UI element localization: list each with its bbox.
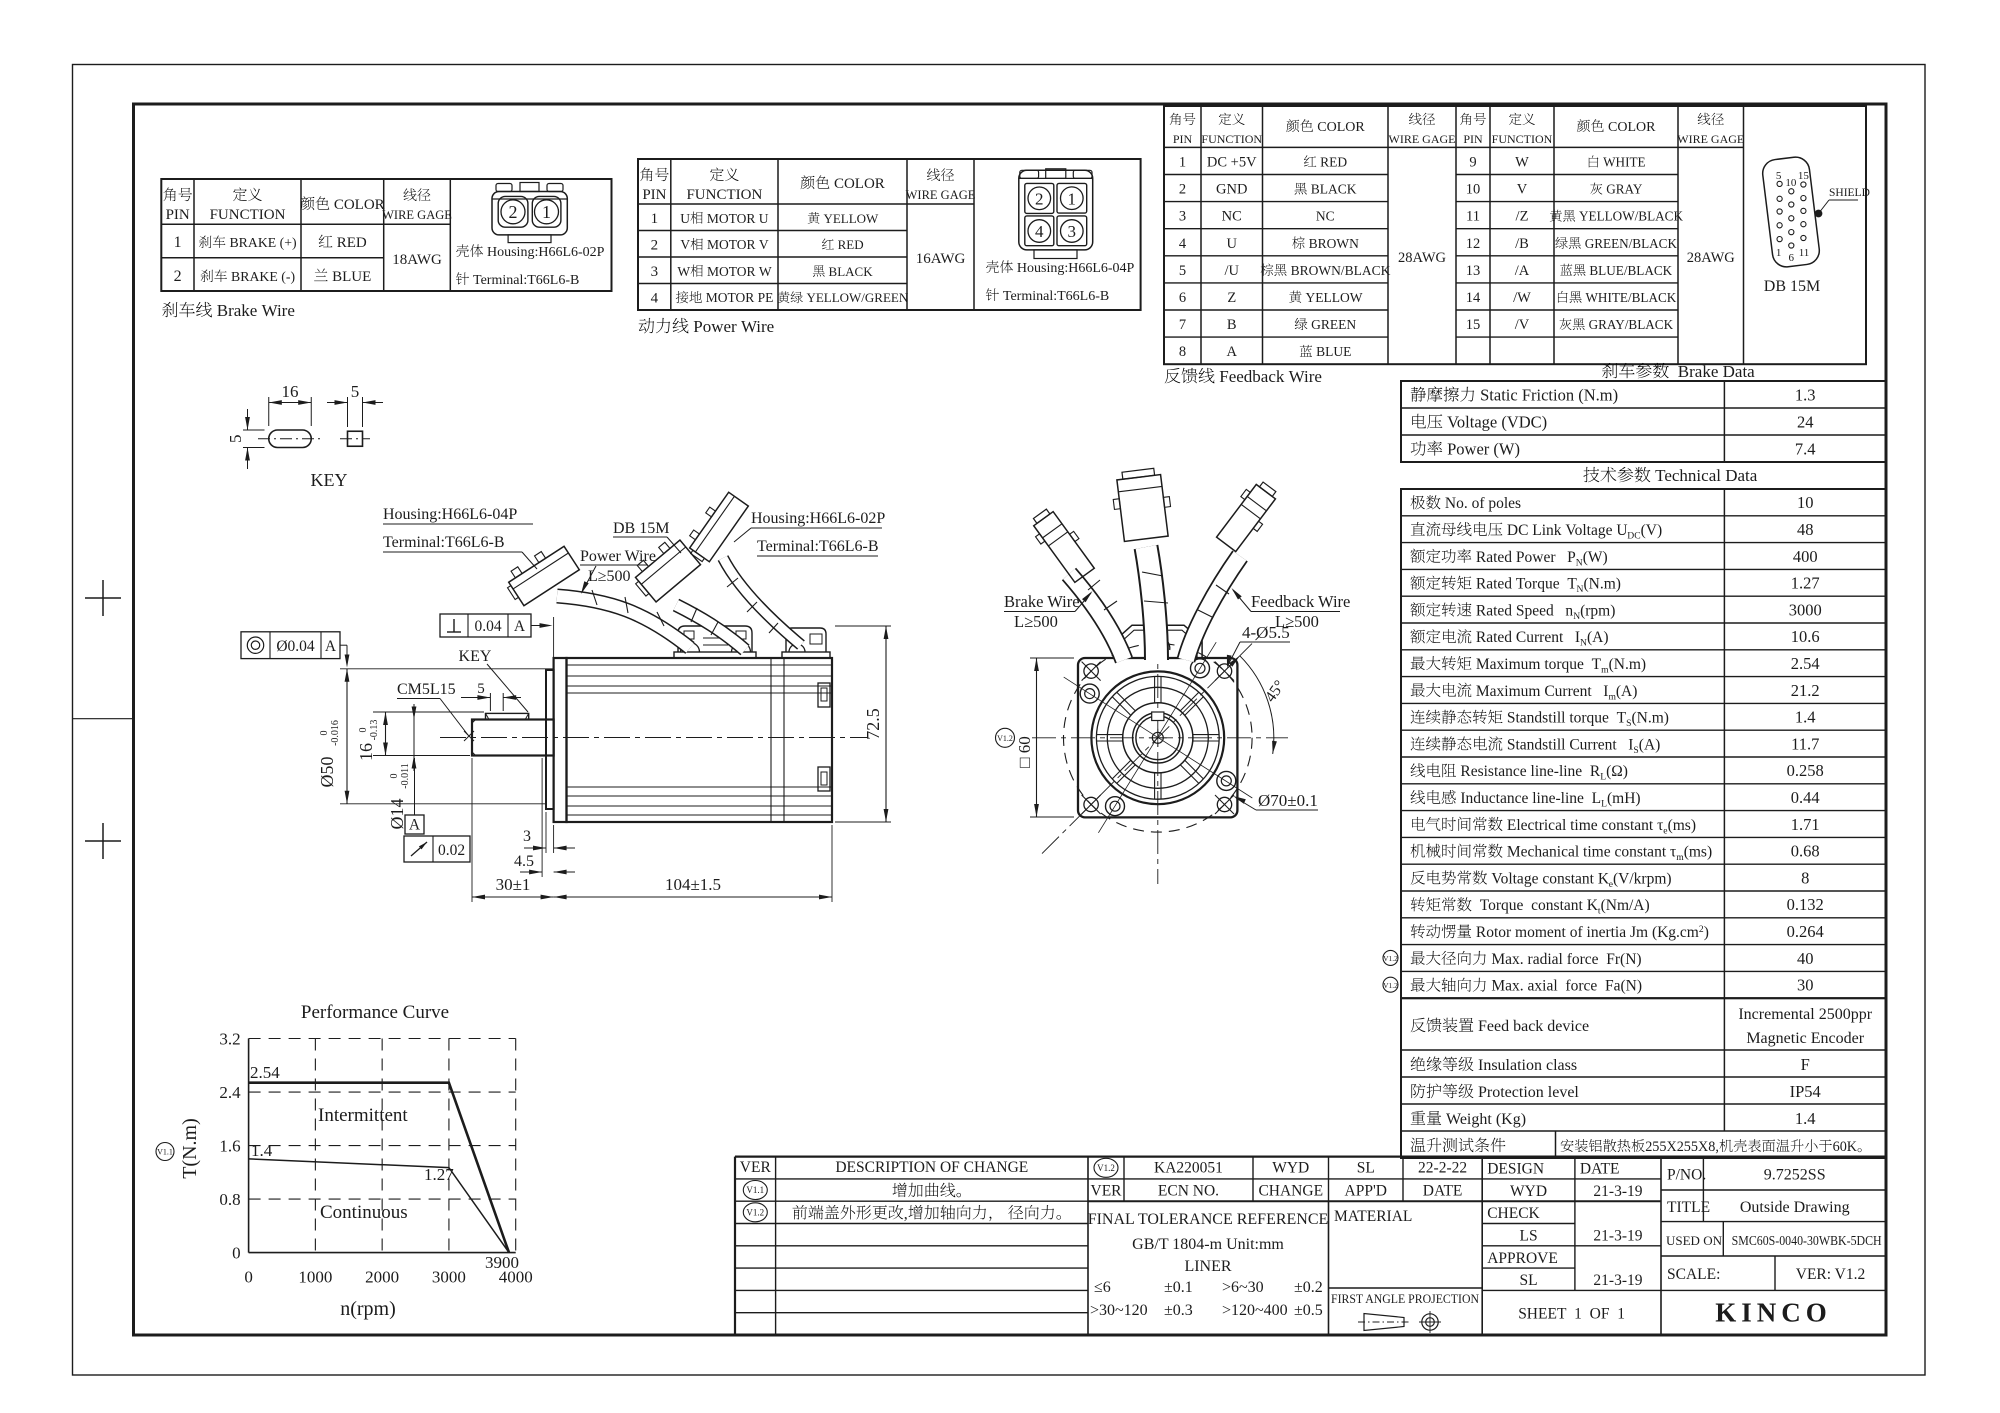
svg-text:T(N.m): T(N.m) (179, 1118, 201, 1179)
svg-text:11: 11 (1466, 209, 1480, 225)
svg-text:COLOR: COLOR (1314, 120, 1366, 135)
svg-text:Maximum torque T: Maximum torque T (1472, 656, 1602, 673)
svg-text:/U: /U (1225, 263, 1240, 279)
front view brake connector (1026, 504, 1098, 585)
svg-text:Max. radial force Fr(N): Max. radial force Fr(N) (1488, 951, 1642, 968)
svg-text:Terminal:T66L6-B: Terminal:T66L6-B (999, 289, 1109, 304)
svg-text:Voltage constant K: Voltage constant K (1488, 870, 1610, 887)
svg-text:4-Ø5.5: 4-Ø5.5 (1242, 623, 1290, 642)
svg-text:8: 8 (1801, 868, 1809, 887)
svg-text:FUNCTION: FUNCTION (210, 207, 286, 223)
svg-text:7: 7 (1179, 317, 1186, 333)
dim 3 (545, 812, 547, 853)
svg-text:WYD: WYD (1510, 1183, 1547, 1200)
svg-text:13: 13 (1466, 263, 1481, 279)
side view power cable (557, 596, 690, 648)
material cell (1481, 1157, 1483, 1335)
brake wire table label (162, 302, 177, 317)
svg-text:1.6: 1.6 (219, 1137, 240, 1156)
svg-text:Z: Z (1227, 290, 1236, 306)
brake wire pin table (161, 179, 611, 291)
front view spokes (1193, 734, 1219, 736)
svg-text:V1.1: V1.1 (157, 1148, 173, 1157)
key detail: 5 dimension top (347, 397, 349, 427)
brake data table title (1602, 363, 1617, 378)
side view DB15M connector (627, 534, 700, 604)
power wire table label (639, 318, 655, 334)
front view middle cable (1146, 547, 1157, 660)
svg-text:BLUE: BLUE (1313, 344, 1352, 359)
front view feedback connector (1213, 477, 1283, 555)
svg-text:Standstill Current I: Standstill Current I (1503, 736, 1633, 753)
svg-text:3: 3 (523, 828, 531, 845)
svg-text:12: 12 (1466, 236, 1481, 252)
continuous curve (249, 1159, 509, 1253)
svg-text:KINCO: KINCO (1715, 1298, 1832, 1328)
svg-text:COLOR: COLOR (1605, 120, 1657, 135)
svg-text:Electrical time constant τ: Electrical time constant τ (1503, 817, 1663, 834)
svg-text:WHITE/BLACK: WHITE/BLACK (1582, 290, 1677, 305)
svg-text:NC: NC (1316, 209, 1335, 224)
svg-text:1.4: 1.4 (1795, 1109, 1816, 1128)
svg-text:FIRST ANGLE PROJECTION: FIRST ANGLE PROJECTION (1331, 1291, 1480, 1306)
svg-text:PIN: PIN (642, 187, 666, 203)
svg-text:104±1.5: 104±1.5 (665, 875, 721, 894)
svg-text:21.2: 21.2 (1791, 681, 1820, 700)
svg-text:KEY: KEY (459, 648, 492, 665)
centering mark upper-left (85, 597, 121, 599)
svg-text:SL: SL (1520, 1272, 1538, 1289)
svg-text:0: 0 (358, 728, 369, 733)
svg-text:BROWN: BROWN (1305, 236, 1359, 251)
svg-text:(N.m): (N.m) (1632, 710, 1669, 727)
key detail: 5 dimension left (243, 429, 265, 431)
svg-text:16: 16 (282, 382, 299, 401)
svg-text:CHECK: CHECK (1487, 1205, 1540, 1222)
svg-text:Maximum Current I: Maximum Current I (1472, 683, 1608, 700)
svg-text:(N.m): (N.m) (1609, 656, 1646, 673)
svg-text:/V: /V (1515, 317, 1530, 333)
svg-text:Magnetic Encoder: Magnetic Encoder (1746, 1030, 1864, 1047)
svg-text:/W: /W (1513, 290, 1531, 306)
svg-text:LS: LS (1520, 1228, 1538, 1245)
svg-text:-0.13: -0.13 (369, 720, 380, 741)
datum A box (405, 815, 424, 834)
V1.2 bubble front view (996, 728, 1015, 747)
svg-text:(N.m): (N.m) (1584, 576, 1621, 593)
svg-text:3900: 3900 (485, 1253, 519, 1272)
svg-text:400: 400 (1793, 547, 1818, 566)
svg-text:(Ω): (Ω) (1606, 763, 1628, 780)
svg-text:Outside Drawing: Outside Drawing (1740, 1199, 1850, 1216)
svg-text:2: 2 (174, 268, 182, 285)
svg-text:(rpm): (rpm) (1580, 602, 1615, 619)
svg-text:(W): (W) (1583, 549, 1608, 566)
svg-text:BLACK: BLACK (1307, 182, 1356, 197)
svg-text:DESIGN: DESIGN (1487, 1161, 1544, 1178)
front view right cable (1186, 556, 1240, 660)
svg-text:BROWN/BLACK: BROWN/BLACK (1287, 263, 1390, 278)
concentricity tolerance box (d0.04 A) (241, 632, 340, 659)
svg-text:(mH): (mH) (1607, 790, 1641, 807)
svg-text:SHEET 1 OF 1: SHEET 1 OF 1 (1518, 1305, 1625, 1322)
svg-text:5: 5 (1179, 263, 1186, 279)
performance curve grid (249, 1038, 516, 1040)
svg-text:Housing:H66L6-04P: Housing:H66L6-04P (1013, 261, 1134, 276)
svg-text:21-3-19: 21-3-19 (1593, 1272, 1642, 1289)
svg-text:Resistance line-line R: Resistance line-line R (1457, 763, 1601, 780)
svg-text:P/NO.: P/NO. (1667, 1166, 1706, 1183)
front view left cable (1069, 574, 1124, 660)
svg-text:3: 3 (1068, 222, 1077, 241)
svg-text:CM5L15: CM5L15 (397, 681, 456, 698)
svg-text:SMC60S-0040-30WBK-5DCH: SMC60S-0040-30WBK-5DCH (1732, 1234, 1882, 1249)
svg-text:COLOR: COLOR (830, 176, 885, 192)
svg-text:10: 10 (1797, 493, 1814, 512)
svg-text:255X255X8,: 255X255X8, (1645, 1139, 1719, 1155)
svg-text:Housing:H66L6-02P: Housing:H66L6-02P (484, 245, 605, 260)
front view bolt circle dashed (1064, 644, 1253, 833)
svg-text:2: 2 (651, 237, 659, 253)
svg-text:A: A (325, 638, 337, 655)
svg-text:/Z: /Z (1516, 209, 1529, 225)
side view shaft key (486, 713, 529, 719)
svg-text:NC: NC (1222, 209, 1242, 225)
svg-text:±0.2: ±0.2 (1294, 1279, 1323, 1296)
feedback wire table label (1165, 368, 1181, 383)
DB15M connector drawing (1761, 156, 1821, 269)
dim 72.5 (835, 625, 891, 627)
svg-text:V1.2: V1.2 (1383, 954, 1398, 963)
svg-text:9.7252SS: 9.7252SS (1764, 1166, 1826, 1183)
svg-text:0: 0 (232, 1244, 241, 1263)
svg-text:Ø70±0.1: Ø70±0.1 (1258, 791, 1318, 810)
svg-text:Housing:H66L6-02P: Housing:H66L6-02P (751, 510, 885, 527)
svg-text:): ) (1704, 924, 1709, 941)
svg-text:Power Wire: Power Wire (580, 548, 656, 565)
svg-text:11.7: 11.7 (1791, 734, 1819, 753)
svg-text:11: 11 (1799, 247, 1810, 259)
svg-text:4.5: 4.5 (514, 853, 534, 870)
svg-text:MOTOR V: MOTOR V (704, 237, 769, 252)
svg-text:FUNCTION: FUNCTION (686, 187, 762, 203)
svg-text:W: W (677, 264, 690, 279)
front view diagonal centerline 45deg (1042, 634, 1262, 854)
svg-text:3: 3 (1179, 209, 1186, 225)
svg-text:2: 2 (509, 202, 518, 222)
svg-text:MOTOR W: MOTOR W (704, 264, 772, 279)
svg-text:BRAKE (-): BRAKE (-) (228, 269, 295, 285)
lower spec rows (1401, 998, 1886, 1158)
svg-text:3: 3 (651, 264, 659, 280)
revision bubbles V1.2 beside force rows (1383, 950, 1398, 965)
svg-text:B: B (1227, 317, 1237, 333)
front view hub and shaft circles (1133, 713, 1183, 763)
svg-text:0.132: 0.132 (1787, 895, 1824, 914)
svg-text:SHIELD: SHIELD (1829, 187, 1870, 199)
key detail: stadium outline (269, 430, 312, 448)
svg-text:7.4: 7.4 (1795, 440, 1816, 459)
svg-text:1: 1 (1776, 247, 1782, 259)
margin zone divider (73, 718, 134, 720)
dim 4.5 (541, 758, 543, 877)
svg-text:VER: V1.2: VER: V1.2 (1796, 1266, 1865, 1283)
performance curve axes (248, 1039, 250, 1253)
technical data table (1401, 489, 1886, 998)
svg-text:Torque constant K: Torque constant K (1472, 897, 1599, 914)
svg-text:TITLE: TITLE (1667, 1199, 1710, 1216)
svg-text:3000: 3000 (1789, 600, 1822, 619)
svg-text:A: A (1227, 344, 1238, 360)
front view top connector mount (1114, 625, 1202, 658)
key detail: 16 dimension (268, 397, 270, 426)
svg-text:21-3-19: 21-3-19 (1593, 1228, 1642, 1245)
svg-text:BLACK: BLACK (825, 264, 873, 279)
svg-text:YELLOW: YELLOW (1302, 290, 1363, 305)
svg-text:N: N (1580, 638, 1587, 649)
side view front flange (554, 658, 567, 822)
svg-text:Standstill torque T: Standstill torque T (1503, 710, 1627, 727)
45 degree arc (1240, 656, 1274, 754)
side view motor body (567, 658, 833, 822)
svg-text:5: 5 (1776, 170, 1782, 182)
svg-text:RED: RED (1317, 155, 1348, 170)
svg-text:DESCRIPTION OF CHANGE: DESCRIPTION OF CHANGE (835, 1159, 1028, 1176)
svg-text:GRAY: GRAY (1603, 182, 1643, 197)
svg-text:V1.2: V1.2 (1097, 1163, 1115, 1173)
svg-text:Performance Curve: Performance Curve (301, 1002, 449, 1023)
svg-text:(V): (V) (1641, 522, 1663, 539)
svg-text:A: A (409, 817, 421, 834)
svg-text:PIN: PIN (166, 207, 190, 223)
side view power connector base (678, 626, 752, 652)
svg-text:n(rpm): n(rpm) (340, 1298, 396, 1320)
svg-text:U: U (1227, 236, 1238, 252)
svg-text:16: 16 (356, 743, 376, 761)
svg-text:CHANGE: CHANGE (1258, 1182, 1323, 1199)
svg-text:YELLOW/GREEN: YELLOW/GREEN (803, 290, 909, 305)
svg-text:WIRE GAGE: WIRE GAGE (906, 188, 976, 202)
svg-text:YELLOW/BLACK: YELLOW/BLACK (1576, 209, 1684, 224)
side view power connector H66L6-04P (501, 540, 579, 608)
svg-text:GREEN/BLACK: GREEN/BLACK (1581, 236, 1677, 251)
front view square flange (1078, 658, 1237, 817)
svg-text:DC Link Voltage U: DC Link Voltage U (1503, 522, 1628, 539)
dim 104 +/-1.5 (831, 825, 833, 902)
svg-text:WIRE GAGE: WIRE GAGE (1677, 132, 1744, 146)
svg-text:-0.011: -0.011 (400, 763, 411, 788)
dim diameter 50 (340, 668, 554, 670)
svg-text:0.44: 0.44 (1791, 788, 1820, 807)
svg-text:(A): (A) (1587, 629, 1609, 646)
svg-text:WYD: WYD (1272, 1160, 1309, 1177)
svg-text:±0.1: ±0.1 (1164, 1279, 1193, 1296)
svg-text:6: 6 (1789, 252, 1795, 264)
svg-text:0.68: 0.68 (1791, 842, 1820, 861)
svg-text:3.2: 3.2 (219, 1030, 240, 1049)
svg-text:Inductance line-line L: Inductance line-line L (1457, 790, 1602, 807)
svg-text:W: W (1515, 154, 1529, 170)
inner drawing frame (134, 104, 1887, 1335)
svg-text:RED: RED (834, 237, 863, 252)
svg-text:Power (W): Power (W) (1443, 440, 1520, 459)
dim 30 +/-1 (471, 758, 473, 902)
svg-text:Feed back device: Feed back device (1474, 1018, 1589, 1035)
svg-text:Terminal:T66L6-B: Terminal:T66L6-B (757, 538, 879, 555)
centering mark lower-left (85, 840, 121, 842)
svg-text:28AWG: 28AWG (1398, 250, 1446, 266)
svg-text:2000: 2000 (365, 1268, 399, 1287)
svg-text:2.4: 2.4 (219, 1083, 241, 1102)
svg-text:DATE: DATE (1580, 1161, 1620, 1178)
svg-text:2: 2 (1035, 190, 1044, 209)
side view brake connector H66L6-02P (682, 488, 749, 565)
dim diameter 14 (413, 704, 415, 720)
svg-text:SCALE:: SCALE: (1667, 1266, 1720, 1283)
front view cable gland circle (1146, 636, 1170, 650)
svg-text:1: 1 (1068, 190, 1077, 209)
svg-text:2: 2 (1179, 182, 1186, 198)
svg-text:8: 8 (1179, 344, 1186, 360)
svg-text:21-3-19: 21-3-19 (1593, 1183, 1642, 1200)
brake wire 2-pin connector icon (492, 192, 567, 235)
side view centerline (440, 737, 868, 739)
svg-text:Technical Data: Technical Data (1651, 466, 1758, 485)
svg-text:1: 1 (542, 202, 551, 222)
first angle projection cell (1329, 1287, 1483, 1289)
svg-text:-0.016: -0.016 (330, 720, 341, 746)
svg-text:15: 15 (1466, 317, 1481, 333)
svg-text:±0.3: ±0.3 (1164, 1302, 1193, 1319)
projection symbol circles (1422, 1314, 1438, 1330)
svg-text:WIRE GAGE: WIRE GAGE (1389, 132, 1456, 146)
svg-text:1.4: 1.4 (1795, 708, 1816, 727)
svg-text:L≥500: L≥500 (588, 568, 631, 585)
svg-text:0.04: 0.04 (474, 618, 501, 635)
revision history table (735, 1178, 1088, 1180)
svg-text:APPROVE: APPROVE (1487, 1250, 1558, 1267)
svg-text:No. of poles: No. of poles (1441, 495, 1521, 512)
svg-text:14: 14 (1466, 290, 1481, 306)
svg-text:Rated Speed n: Rated Speed n (1472, 602, 1573, 619)
design/check/approve columns (1574, 1157, 1576, 1291)
svg-text:≤6: ≤6 (1094, 1279, 1111, 1296)
svg-text:10: 10 (1785, 177, 1797, 189)
DB15M shield pin dot and label (1815, 210, 1822, 217)
temperature rise test condition row (1555, 1131, 1557, 1158)
svg-text:Terminal:T66L6-B: Terminal:T66L6-B (383, 534, 505, 551)
svg-text:Protection level: Protection level (1474, 1084, 1579, 1101)
svg-text:30: 30 (1797, 976, 1814, 995)
svg-text:40: 40 (1797, 949, 1814, 968)
svg-text:/A: /A (1515, 263, 1530, 279)
svg-text:DATE: DATE (1423, 1182, 1463, 1199)
svg-text:Ø0.04: Ø0.04 (276, 638, 315, 655)
svg-text:YELLOW: YELLOW (820, 211, 879, 226)
svg-text:28AWG: 28AWG (1687, 250, 1735, 266)
svg-text:MOTOR PE: MOTOR PE (702, 290, 773, 305)
svg-text:V1.2: V1.2 (746, 1207, 764, 1217)
front view through holes 4x (1191, 659, 1210, 678)
used on cell (1722, 1222, 1724, 1256)
svg-text:FINAL TOLERANCE REFERENCE: FINAL TOLERANCE REFERENCE (1088, 1211, 1329, 1228)
front view body circles (1091, 671, 1224, 804)
svg-text:5: 5 (351, 382, 360, 401)
svg-text:1: 1 (174, 234, 182, 251)
key detail: square section (348, 431, 363, 446)
svg-text:DB 15M: DB 15M (613, 520, 669, 537)
svg-text:GB/T 1804-m Unit:mm: GB/T 1804-m Unit:mm (1132, 1236, 1284, 1253)
svg-text:2.54: 2.54 (250, 1063, 280, 1082)
intermittent curve (249, 1083, 509, 1253)
svg-text:0.8: 0.8 (219, 1190, 240, 1209)
svg-text:15: 15 (1798, 170, 1810, 182)
svg-text:RED: RED (333, 235, 367, 251)
svg-text:Ø14: Ø14 (387, 799, 407, 830)
svg-text:0.258: 0.258 (1787, 761, 1824, 780)
front view corner mounting holes 4x (1084, 664, 1098, 678)
svg-text:PIN: PIN (1173, 132, 1193, 146)
side view brake cable (723, 558, 801, 645)
power wire pin table (638, 159, 1141, 310)
svg-text:Rotor moment of inertia Jm (Kg: Rotor moment of inertia Jm (Kg.cm (1472, 924, 1699, 941)
svg-text:0.02: 0.02 (438, 842, 465, 859)
svg-text:USED ON: USED ON (1666, 1233, 1723, 1248)
svg-text:30±1: 30±1 (496, 875, 531, 894)
side view pilot boss (546, 670, 554, 809)
svg-text:U: U (680, 211, 690, 226)
brake data table (1401, 381, 1886, 462)
svg-text:(A): (A) (1639, 736, 1661, 753)
svg-text:24: 24 (1797, 413, 1814, 432)
svg-text:BLUE/BLACK: BLUE/BLACK (1586, 263, 1673, 278)
svg-text:APP'D: APP'D (1345, 1182, 1387, 1199)
technical data table title (1583, 467, 1599, 482)
svg-text:/B: /B (1515, 236, 1529, 252)
part number / title cells (1702, 1157, 1704, 1222)
svg-text:1000: 1000 (298, 1268, 332, 1287)
svg-text:22-2-22: 22-2-22 (1418, 1160, 1467, 1177)
svg-text:DC: DC (1627, 531, 1640, 542)
svg-text:BLUE: BLUE (328, 269, 371, 285)
power wire 4-pin connector icon (1019, 170, 1093, 250)
svg-text:Rated Torque T: Rated Torque T (1472, 576, 1577, 593)
svg-text:Housing:H66L6-04P: Housing:H66L6-04P (383, 506, 517, 523)
svg-text:L≥500: L≥500 (1014, 612, 1058, 631)
feedback wire pin table (1164, 106, 1866, 364)
svg-text:1.3: 1.3 (1795, 386, 1816, 405)
svg-text:Mechanical time constant τ: Mechanical time constant τ (1503, 844, 1676, 861)
svg-text:Incremental 2500ppr: Incremental 2500ppr (1738, 1006, 1872, 1023)
svg-text:VER: VER (1091, 1182, 1123, 1199)
svg-text:Voltage (VDC): Voltage (VDC) (1443, 413, 1547, 432)
svg-text:Continuous: Continuous (320, 1202, 408, 1223)
front view centerlines (1157, 596, 1159, 884)
svg-text:16AWG: 16AWG (916, 251, 966, 267)
front view shaft key slot (1152, 712, 1164, 721)
svg-text:Max. axial force Fa(N): Max. axial force Fa(N) (1488, 978, 1643, 995)
svg-text:10.6: 10.6 (1791, 627, 1820, 646)
svg-text:(Nm/A): (Nm/A) (1601, 897, 1650, 914)
svg-text:1.71: 1.71 (1791, 815, 1820, 834)
front view power connector (middle) (1110, 467, 1174, 542)
svg-text:WIRE GAGE: WIRE GAGE (382, 208, 452, 222)
svg-text:Ø50: Ø50 (317, 757, 337, 788)
circular runout tolerance box (404, 836, 470, 862)
svg-text:5: 5 (477, 681, 485, 697)
svg-text:FUNCTION: FUNCTION (1492, 132, 1553, 146)
svg-text:GND: GND (1216, 182, 1247, 198)
